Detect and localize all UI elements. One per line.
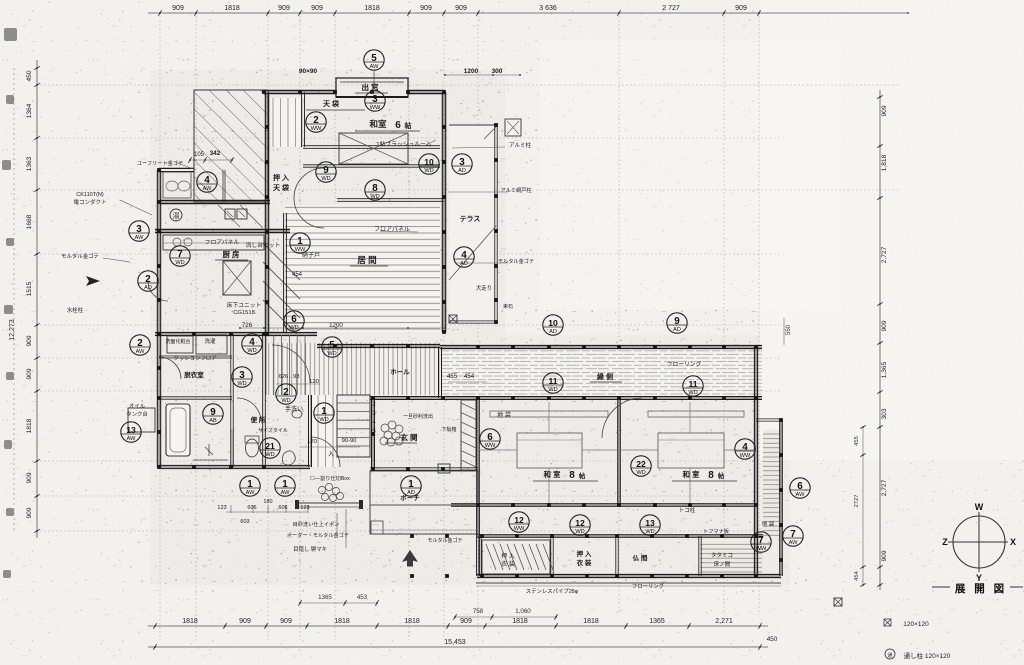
porch	[370, 471, 478, 534]
terrace boundary	[494, 125, 496, 322]
svg-text:909: 909	[26, 472, 33, 483]
svg-text:12: 12	[575, 518, 585, 528]
svg-text:硝子戸: 硝子戸	[302, 251, 320, 259]
svg-text:1818: 1818	[512, 618, 528, 625]
symbol circle 2WD	[276, 384, 296, 404]
symbol circle 11WD	[543, 373, 563, 393]
svg-text:WD: WD	[688, 390, 697, 396]
svg-text:便 所: 便 所	[251, 415, 266, 424]
horizontal extension dotted lines left	[40, 84, 900, 86]
svg-text:909: 909	[26, 368, 33, 379]
svg-text:15,453: 15,453	[444, 639, 466, 646]
underfloor unit box	[223, 261, 251, 295]
svg-text:AW: AW	[127, 436, 137, 442]
fence witness lines	[345, 509, 347, 548]
svg-text:トフマナ板: トフマナ板	[703, 527, 730, 535]
amado box top right	[505, 119, 521, 136]
genkan walls	[371, 398, 373, 469]
svg-text:2: 2	[283, 387, 289, 398]
symbol circle 4AW	[197, 172, 217, 192]
svg-text:3: 3	[239, 370, 245, 381]
svg-text:WD: WD	[424, 168, 433, 174]
atrium diagonal hatch	[194, 90, 268, 202]
toilet	[246, 439, 259, 457]
svg-text:6: 6	[395, 120, 401, 131]
svg-text:10: 10	[548, 318, 558, 328]
gas boxes over wall	[225, 209, 235, 219]
tatami rooms outline	[438, 347, 440, 398]
svg-text:3: 3	[372, 94, 378, 105]
floor region: stair lower corridor	[308, 395, 337, 467]
stairs main	[337, 395, 370, 457]
svg-text:1818: 1818	[583, 618, 599, 625]
svg-text:1200: 1200	[329, 322, 343, 329]
svg-text:下駄箱: 下駄箱	[441, 426, 456, 433]
svg-text:WD: WD	[645, 529, 654, 535]
svg-text:WW: WW	[311, 126, 322, 132]
symbol circle 2AD	[138, 271, 158, 291]
svg-text:WD: WD	[237, 381, 246, 387]
svg-text:909: 909	[172, 5, 184, 12]
left dimension chain	[36, 60, 38, 538]
svg-text:12,273: 12,273	[9, 319, 16, 341]
svg-text:120: 120	[309, 379, 319, 385]
svg-text:AW: AW	[796, 492, 806, 498]
svg-text:909: 909	[881, 320, 888, 331]
svg-text:5: 5	[371, 53, 377, 64]
right dimension chain	[879, 90, 881, 590]
symbol circle 9AB	[203, 404, 223, 424]
stairs upper run	[266, 335, 305, 395]
svg-text:8: 8	[569, 470, 575, 481]
kitchen counter	[163, 235, 264, 250]
bay window	[336, 78, 408, 97]
corridor south wall	[370, 396, 762, 398]
svg-text:帖: 帖	[579, 471, 586, 480]
symbol circle 7WW	[751, 532, 771, 552]
svg-text:120×120: 120×120	[903, 621, 929, 628]
entrance arrow	[86, 276, 100, 286]
svg-text:地 袋: 地 袋	[762, 520, 775, 528]
symbol circle 8WD	[365, 180, 385, 200]
svg-text:アルミ網戸柱: アルミ網戸柱	[500, 186, 531, 194]
svg-text:1: 1	[297, 236, 303, 247]
posts	[449, 315, 457, 323]
svg-text:454: 454	[464, 373, 475, 380]
svg-text:Z: Z	[942, 537, 948, 547]
svg-text:厨 房: 厨 房	[222, 249, 240, 259]
symbol circle 11WD	[683, 376, 703, 396]
svg-text:3: 3	[459, 157, 465, 168]
oil tank platform	[128, 408, 155, 432]
svg-text:AD: AD	[144, 285, 152, 291]
svg-text:洗濯: 洗濯	[204, 337, 216, 345]
svg-text:2,271: 2,271	[715, 618, 733, 625]
svg-text:8: 8	[708, 470, 714, 481]
svg-text:WD: WD	[327, 351, 336, 357]
svg-text:オイル: オイル	[129, 403, 146, 410]
tatami room1 top band	[490, 411, 608, 417]
svg-text:地 袋: 地 袋	[497, 411, 511, 419]
svg-text:454: 454	[854, 570, 860, 580]
tatami room2 top band	[648, 411, 744, 417]
floor region: east narrow veranda wood grain	[763, 430, 780, 538]
svg-text:90-90: 90-90	[342, 438, 357, 444]
svg-text:120: 120	[307, 439, 317, 445]
symbol circle 3AW	[129, 221, 149, 241]
svg-text:1818: 1818	[364, 5, 380, 12]
svg-text:1帖ブラッシュルーム: 1帖ブラッシュルーム	[376, 140, 431, 148]
svg-text:WD: WD	[575, 529, 584, 535]
svg-text:脱衣室: 脱衣室	[184, 370, 204, 379]
svg-text:☐—割り仕切Box: ☐—割り仕切Box	[310, 474, 350, 482]
svg-text:1,365: 1,365	[881, 361, 888, 378]
svg-text:1818: 1818	[404, 618, 420, 625]
svg-text:105: 105	[194, 152, 205, 158]
compass rose	[953, 516, 1005, 568]
water heater circle	[170, 209, 182, 221]
svg-text:909: 909	[455, 5, 467, 12]
svg-text:モルタル金ゴテ: モルタル金ゴテ	[61, 252, 99, 260]
symbol circle 1WD	[314, 403, 334, 423]
svg-text:衣 装: 衣 装	[501, 560, 515, 568]
symbol circle 7WD	[170, 246, 190, 266]
svg-text:10: 10	[424, 157, 434, 167]
svg-text:9: 9	[210, 407, 216, 418]
svg-text:CG1518: CG1518	[233, 310, 255, 316]
west wing inner walls	[159, 396, 232, 398]
svg-text:1,060: 1,060	[515, 608, 531, 615]
svg-text:WD: WD	[370, 194, 379, 200]
svg-text:1: 1	[247, 479, 253, 490]
svg-text:一旦砂利洗出: 一旦砂利洗出	[403, 413, 433, 420]
symbol circle 6WD	[284, 311, 304, 331]
wall poche underlay	[155, 92, 781, 576]
svg-text:フローリング: フローリング	[632, 582, 665, 590]
svg-text:玄 関: 玄 関	[400, 432, 418, 442]
washroom fixtures boxes	[167, 336, 193, 353]
utility closet small boxes x194-230 y171-200	[163, 172, 191, 198]
east outer wall strip	[779, 420, 781, 576]
svg-text:453: 453	[357, 594, 368, 601]
flower cluster porch	[318, 486, 325, 493]
bottom dimension chains	[148, 625, 768, 627]
svg-text:342: 342	[210, 150, 221, 157]
svg-text:AD: AD	[460, 261, 468, 267]
big diagonals over stair corridor	[263, 243, 300, 280]
svg-text:758: 758	[473, 608, 484, 615]
svg-text:909: 909	[26, 507, 33, 518]
south wall of north wing	[155, 331, 317, 333]
svg-text:テラス: テラス	[460, 215, 481, 223]
svg-text:603: 603	[240, 519, 249, 525]
svg-text:天 袋: 天 袋	[273, 183, 290, 192]
svg-text:1363: 1363	[26, 156, 33, 171]
tatami room1 inner band	[517, 433, 582, 468]
symbol circle 3WW	[365, 91, 385, 111]
svg-text:W: W	[975, 502, 984, 512]
svg-text:トコ柱: トコ柱	[679, 506, 696, 514]
symbol circle 5AW	[364, 50, 384, 70]
svg-text:2 727: 2 727	[662, 5, 680, 12]
svg-text:フロアパネル: フロアパネル	[205, 239, 240, 246]
svg-text:4: 4	[461, 250, 467, 261]
svg-text:909: 909	[311, 5, 323, 12]
fence south of west wing	[298, 502, 362, 504]
svg-text:湯: 湯	[173, 211, 180, 220]
symbol circle 2WW	[306, 112, 326, 132]
svg-text:7: 7	[790, 529, 796, 540]
svg-text:水栓柱: 水栓柱	[67, 306, 84, 314]
svg-text:13: 13	[645, 518, 655, 528]
svg-text:WD: WD	[548, 387, 557, 393]
tatami room2 inner band	[658, 433, 724, 468]
svg-text:2: 2	[313, 115, 319, 126]
svg-text:1: 1	[282, 479, 288, 490]
symbol circle 22WD	[631, 456, 651, 476]
svg-text:606: 606	[247, 505, 256, 511]
svg-text:WW: WW	[740, 453, 751, 459]
svg-text:ステンレスパイプ25φ: ステンレスパイプ25φ	[526, 588, 579, 595]
genkan shoe band hatched	[461, 400, 476, 470]
svg-text:通: 通	[887, 652, 892, 659]
svg-text:押 入: 押 入	[577, 549, 592, 558]
svg-text:ボーダー・モルタル金ゴテ: ボーダー・モルタル金ゴテ	[287, 531, 349, 539]
svg-text:AW: AW	[136, 349, 146, 355]
svg-text:WD: WD	[319, 417, 328, 423]
svg-text:洗面化粧台: 洗面化粧台	[165, 338, 190, 345]
symbol circle 4WD	[242, 334, 262, 354]
svg-text:WD: WD	[289, 325, 298, 331]
svg-text:6: 6	[487, 432, 493, 443]
svg-text:5: 5	[329, 340, 335, 351]
floor region: terrace	[449, 125, 493, 323]
east wall	[441, 92, 443, 332]
symbol circle 9WD	[316, 162, 336, 182]
svg-text:909: 909	[460, 618, 472, 625]
floor region: hall vertical planks	[267, 343, 440, 395]
svg-text:455: 455	[447, 373, 458, 380]
svg-text:909: 909	[26, 335, 33, 346]
svg-text:450: 450	[767, 636, 778, 643]
west wing outer	[156, 334, 158, 467]
svg-text:13: 13	[126, 425, 136, 435]
floor region: tatami corner wood grain	[700, 541, 762, 574]
svg-text:909: 909	[278, 5, 290, 12]
door arcs	[294, 168, 324, 198]
svg-text:2,727: 2,727	[881, 479, 888, 496]
svg-text:タンク台: タンク台	[126, 410, 148, 418]
tree symbol	[402, 550, 418, 567]
svg-text:9: 9	[674, 316, 680, 327]
svg-text:1818: 1818	[182, 618, 198, 625]
closet hatch bottom	[482, 540, 550, 574]
svg-text:床下ユニット: 床下ユニット	[227, 301, 262, 309]
svg-text:流し台セット: 流し台セット	[246, 241, 281, 249]
svg-text:WD: WD	[321, 176, 330, 182]
svg-text:押 入: 押 入	[501, 552, 515, 560]
svg-text:WW: WW	[514, 526, 525, 532]
svg-text:帖: 帖	[718, 471, 725, 480]
svg-text:AW: AW	[789, 540, 799, 546]
svg-text:1: 1	[321, 406, 327, 417]
svg-text:入: 入	[328, 451, 334, 458]
svg-text:和室: 和室	[369, 119, 387, 129]
svg-text:束石: 束石	[503, 304, 513, 310]
svg-text:1200: 1200	[464, 68, 479, 75]
svg-text:3: 3	[136, 224, 142, 235]
svg-text:縁 側: 縁 側	[597, 372, 613, 381]
leader lines	[120, 200, 152, 215]
symbol circle 10AD	[543, 315, 563, 335]
top dimension chain	[148, 12, 908, 14]
outer walls north wing	[264, 89, 336, 91]
symbol circle 21WD	[260, 438, 280, 458]
svg-text:303: 303	[881, 408, 888, 419]
svg-text:2: 2	[145, 274, 151, 285]
symbol circle 6AW	[790, 478, 810, 498]
svg-text:犬走り: 犬走り	[476, 284, 492, 292]
svg-text:7: 7	[758, 535, 764, 546]
svg-text:909: 909	[239, 618, 251, 625]
underlines for room names	[355, 130, 420, 132]
svg-text:AW: AW	[135, 235, 145, 241]
svg-text:サイズタイル: サイズタイル	[258, 427, 288, 434]
svg-text:550: 550	[786, 324, 792, 335]
tatami joint lines room1	[548, 402, 550, 433]
svg-text:11: 11	[688, 379, 697, 389]
svg-text:フロアパネル: フロアパネル	[374, 226, 410, 233]
symbol circle 2AW	[130, 335, 150, 355]
svg-text:通し柱 120×120: 通し柱 120×120	[904, 651, 951, 660]
svg-text:4: 4	[204, 175, 210, 186]
svg-text:居 間: 居 間	[356, 255, 376, 265]
symbol circle 9AD	[667, 313, 687, 333]
symbol circle 7AW	[783, 526, 803, 546]
floor region: living room horizontal planks	[285, 205, 440, 332]
svg-text:909: 909	[735, 5, 747, 12]
symbol circle 3AD	[452, 154, 472, 174]
svg-text:1515: 1515	[26, 281, 33, 296]
svg-text:1: 1	[408, 479, 414, 490]
svg-text:フローリング: フローリング	[667, 360, 702, 368]
svg-text:2727: 2727	[854, 495, 860, 508]
svg-text:6: 6	[291, 314, 297, 325]
svg-text:726: 726	[242, 322, 253, 329]
svg-text:AB: AB	[209, 418, 217, 424]
svg-text:909: 909	[420, 5, 432, 12]
symbol circle 6WW	[480, 429, 500, 449]
svg-text:ポーチ: ポーチ	[400, 493, 420, 502]
tatami joint lines room2	[689, 402, 691, 433]
svg-text:ホール: ホール	[390, 368, 410, 376]
washitsu6 walls	[303, 145, 440, 147]
svg-text:1,818: 1,818	[881, 154, 888, 171]
svg-text:AW: AW	[246, 490, 256, 496]
symbol circle 13AW	[121, 422, 141, 442]
svg-text:タタミコ: タタミコ	[711, 551, 733, 559]
symbol circle 1AD	[401, 476, 421, 496]
central wall x267	[264, 92, 266, 334]
south deck line	[476, 582, 781, 584]
atrium outline	[194, 90, 268, 202]
svg-text:CK110T(N): CK110T(N)	[76, 192, 104, 198]
svg-text:WD: WD	[247, 348, 256, 354]
svg-text:WW: WW	[370, 105, 381, 111]
structural posts	[157, 90, 783, 578]
bottom right notes	[884, 619, 891, 626]
flower cluster genkan	[381, 424, 389, 432]
svg-text:WD: WD	[265, 452, 274, 458]
svg-text:天 袋: 天 袋	[323, 99, 340, 108]
svg-text:展 開 図: 展 開 図	[955, 583, 1007, 595]
svg-text:3 636: 3 636	[539, 5, 557, 12]
symbol circle 1WW	[290, 233, 310, 253]
symbol circle 5WD	[322, 337, 342, 357]
svg-text:電コンダクト: 電コンダクト	[73, 198, 106, 206]
svg-text:仏 間: 仏 間	[633, 553, 648, 562]
svg-text:出 窓: 出 窓	[361, 82, 379, 92]
scan marks left edge	[4, 28, 17, 41]
svg-text:和 室: 和 室	[682, 469, 700, 479]
svg-text:WW: WW	[756, 546, 767, 552]
svg-text:WD: WD	[175, 260, 184, 266]
svg-text:454: 454	[292, 272, 303, 278]
second toilet fixture	[282, 451, 295, 465]
svg-text:WW: WW	[485, 443, 496, 449]
svg-text:AD: AD	[458, 168, 466, 174]
symbol circle 3WD	[232, 367, 252, 387]
bath tub	[166, 404, 190, 456]
svg-text:21: 21	[265, 441, 275, 451]
svg-text:1818: 1818	[224, 5, 240, 12]
svg-text:90×90: 90×90	[299, 68, 318, 75]
svg-text:123: 123	[217, 505, 226, 511]
svg-text:床ノ間: 床ノ間	[714, 560, 731, 568]
svg-text:押 入: 押 入	[273, 173, 289, 182]
svg-text:1668: 1668	[26, 214, 33, 229]
floor region: stairwell top	[271, 98, 303, 147]
svg-text:AW: AW	[370, 64, 380, 70]
svg-text:909: 909	[881, 105, 888, 116]
wall y202	[160, 199, 270, 201]
terrace diagonals	[449, 226, 496, 280]
svg-text:9: 9	[323, 165, 329, 176]
svg-text:4: 4	[249, 337, 255, 348]
svg-text:455: 455	[854, 436, 860, 446]
svg-text:ユーフリート金ゴテ: ユーフリート金ゴテ	[137, 159, 183, 167]
svg-text:11: 11	[548, 376, 557, 386]
svg-text:クッションフロア: クッションフロア	[174, 355, 217, 362]
vertical extension dotted lines	[159, 16, 161, 640]
svg-text:8: 8	[372, 183, 378, 194]
west wall upper	[156, 170, 158, 334]
svg-text:AD: AD	[673, 327, 681, 333]
symbol circle 12WD	[570, 515, 590, 535]
wash basin small	[292, 410, 302, 418]
svg-text:6: 6	[797, 481, 803, 492]
svg-text:909: 909	[280, 618, 292, 625]
south wing: corridor north wall	[440, 344, 762, 346]
svg-text:モルタル金ゴテ: モルタル金ゴテ	[498, 257, 534, 265]
svg-text:12: 12	[514, 515, 524, 525]
small basin box on genkan wall	[438, 464, 450, 473]
south corridor walls	[477, 534, 763, 536]
symbol circle 10WD	[419, 154, 439, 174]
svg-text:衣 装: 衣 装	[577, 558, 592, 567]
svg-text:アルミ柱: アルミ柱	[509, 141, 531, 149]
svg-text:1365: 1365	[649, 618, 665, 625]
